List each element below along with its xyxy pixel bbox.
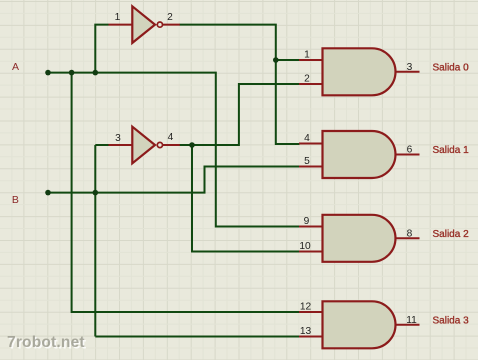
svg-text:1: 1 bbox=[304, 50, 310, 61]
svg-text:2: 2 bbox=[167, 12, 173, 23]
svg-text:7robot.net: 7robot.net bbox=[7, 334, 85, 351]
svg-text:Salida 1: Salida 1 bbox=[433, 145, 470, 156]
svg-text:Salida 2: Salida 2 bbox=[433, 229, 470, 240]
svg-text:12: 12 bbox=[300, 302, 312, 313]
svg-text:6: 6 bbox=[407, 145, 413, 156]
svg-text:9: 9 bbox=[304, 216, 310, 227]
svg-text:3: 3 bbox=[115, 133, 121, 144]
svg-text:8: 8 bbox=[407, 228, 413, 239]
svg-text:1: 1 bbox=[115, 12, 121, 23]
svg-text:13: 13 bbox=[300, 326, 312, 337]
svg-text:Salida 3: Salida 3 bbox=[433, 315, 470, 326]
svg-text:10: 10 bbox=[299, 241, 311, 252]
svg-text:11: 11 bbox=[406, 315, 417, 326]
svg-text:Salida 0: Salida 0 bbox=[433, 62, 470, 73]
svg-text:B: B bbox=[12, 194, 19, 206]
svg-text:2: 2 bbox=[304, 74, 310, 85]
svg-text:A: A bbox=[12, 61, 19, 73]
svg-text:4: 4 bbox=[304, 133, 310, 144]
svg-text:5: 5 bbox=[304, 156, 310, 167]
svg-text:3: 3 bbox=[407, 62, 413, 73]
svg-text:4: 4 bbox=[168, 132, 174, 143]
